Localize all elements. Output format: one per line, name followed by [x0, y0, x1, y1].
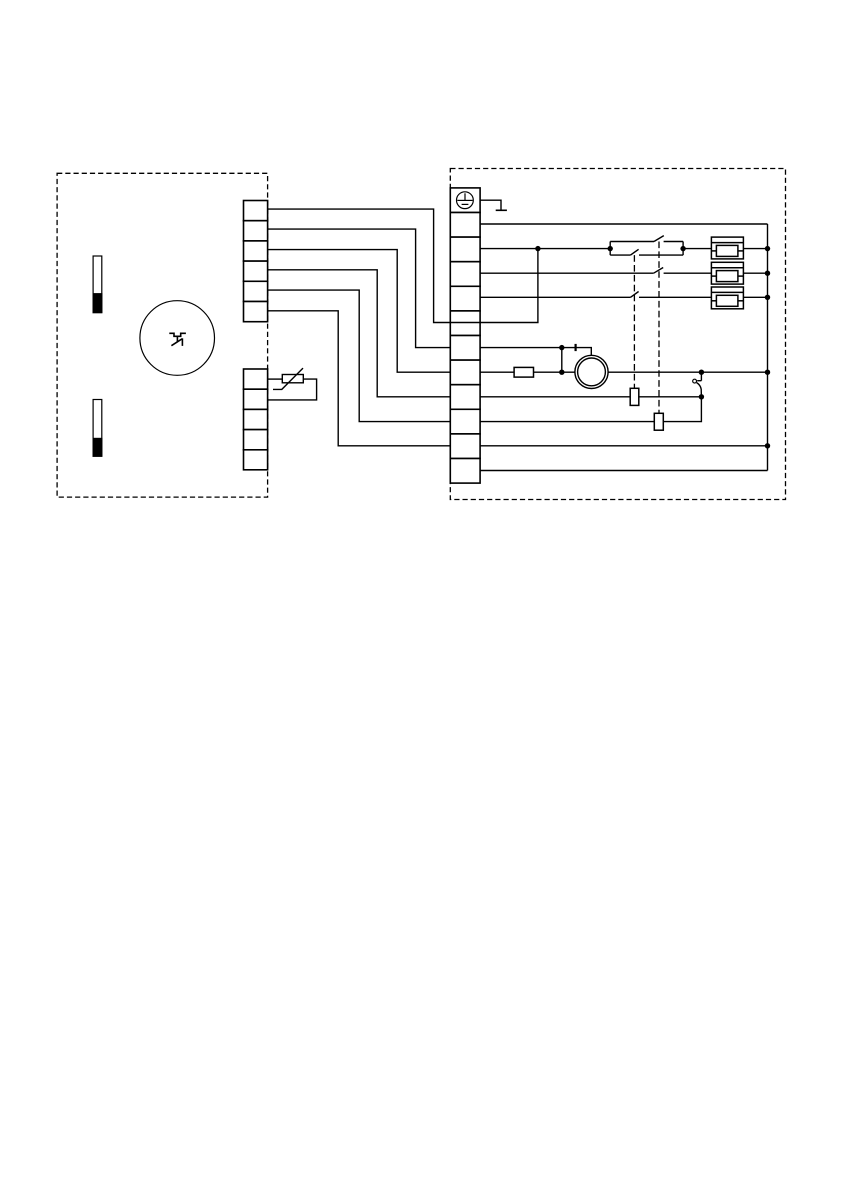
wire motor M2 to bus: [608, 371, 767, 373]
motor M1 glyph: [169, 333, 186, 346]
wire W5 (J1-5 to TB1-10): [268, 290, 451, 422]
earth stub wire from TB1-1: [480, 200, 501, 210]
thermal switch S4: [693, 372, 702, 397]
linkage (dashed, contact pair to coil K2): [658, 242, 660, 414]
bus (right vertical): [767, 224, 769, 471]
node (motor row / thermal switch): [699, 370, 704, 375]
protective earth symbol in TB1-1: [457, 192, 474, 209]
connector J2 (lower left terminal block, 5 ways): [244, 369, 268, 470]
wire TB1-11 to bus: [480, 445, 767, 447]
heater EL3: [711, 287, 743, 309]
node (TB1-7 branch): [559, 345, 564, 350]
wire W4 (J1-4 to TB1-9): [268, 270, 451, 397]
coil K2: [654, 413, 663, 430]
node (R1/motor branch): [559, 370, 564, 375]
connector J1 (upper left terminal block, 6 ways): [244, 201, 268, 322]
node (EL2/bus): [765, 271, 770, 276]
interlock switch S1 (parallel pair of contacts): [610, 236, 683, 256]
node (EL3/bus): [765, 295, 770, 300]
wire TB1-3 to switch block: [480, 248, 610, 250]
node (switch left): [608, 246, 613, 251]
wire TB1-7 to motor top: [480, 348, 591, 356]
linkage (dashed, contact pair to coil K1): [633, 255, 635, 388]
resistor R1: [514, 367, 533, 377]
wire switch to heater EL1: [683, 248, 711, 250]
motor M2 (fan motor, double circle): [575, 355, 608, 388]
wire TB1-2 to bus (top): [480, 223, 767, 225]
wire (branch vertical): [561, 348, 563, 373]
wire R1 to motor M2: [534, 371, 576, 373]
wire TB1-8 to resistor R1: [480, 371, 514, 373]
wire TB1-6 loop up to TB1-3 node: [451, 249, 538, 323]
node (junction TB1-3 / TB1-6): [535, 246, 540, 251]
node (motor row / bus): [765, 370, 770, 375]
terminal strip TB1 (12 ways): [450, 188, 480, 483]
wire (J2-1 to thermistor): [268, 378, 283, 380]
wire W2 (J1-2 to TB1-7): [268, 229, 451, 348]
wire TB1-5 row with contact S3: [480, 292, 711, 298]
earth bar: [496, 209, 507, 211]
capacitor tick C1: [574, 344, 576, 351]
node (TB1-11 / bus): [765, 443, 770, 448]
node (EL1/bus): [765, 246, 770, 251]
motor M1 (grinder unit circle): [140, 301, 215, 376]
node (switch right): [680, 246, 685, 251]
thermistor RT1: [273, 368, 303, 389]
electrode bar E2: [93, 400, 102, 457]
wire TB1-12 to bus bottom: [480, 470, 767, 472]
wire (thermistor to J2-2 loop): [268, 379, 317, 400]
wire TB1-9 to coil K1: [480, 396, 630, 398]
wire W3 (J1-3 to TB1-8): [268, 250, 451, 373]
wire EL2 to bus: [743, 272, 767, 274]
electrode bar E1: [93, 256, 102, 313]
wire TB1-4 row with contact S2: [480, 268, 711, 274]
wire K1 to node: [639, 396, 702, 398]
right enclosure (dashed boundary): [450, 169, 785, 500]
wire EL1 to bus: [743, 248, 767, 250]
wire TB1-10 to coil K2: [480, 421, 654, 423]
wire EL3 to bus: [743, 296, 767, 298]
coil K1: [630, 388, 639, 405]
wire W6 (J1-6 to TB1-11): [268, 311, 451, 446]
wire W1 (J1-1 to TB1-6): [268, 209, 451, 322]
wire K2 up to node: [663, 397, 701, 422]
heater EL1: [711, 237, 743, 259]
heater EL2: [711, 262, 743, 284]
node (K1/K2/switch): [699, 394, 704, 399]
left enclosure (dashed boundary): [57, 173, 268, 497]
